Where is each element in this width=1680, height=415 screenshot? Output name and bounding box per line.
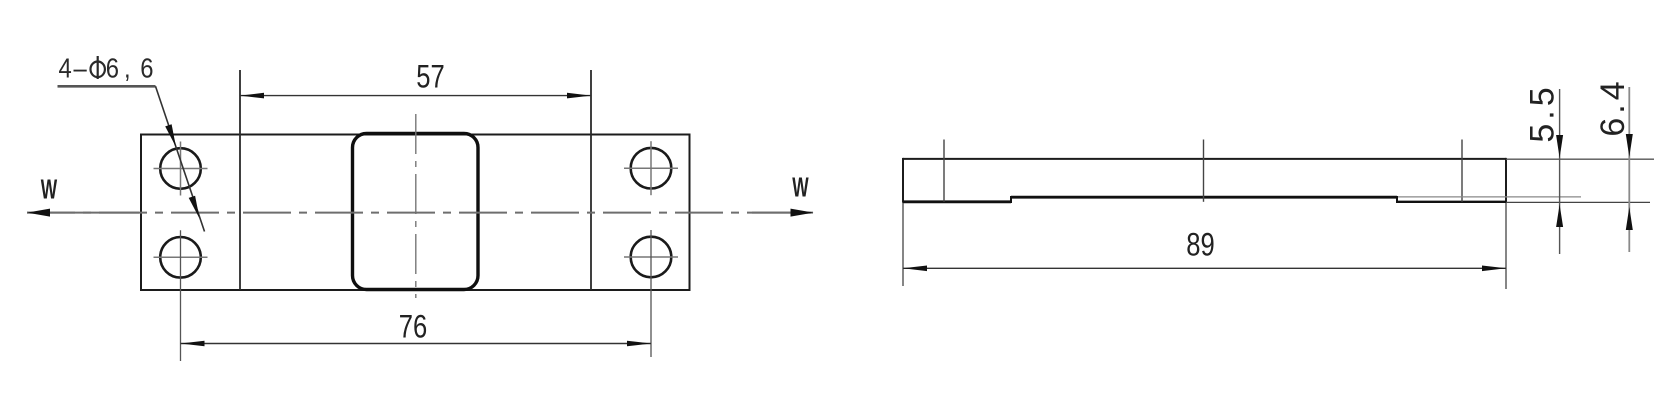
dimension 5.5 arrow bottom (1556, 205, 1563, 228)
horizontal centerline W-W (27, 212, 813, 214)
side view bottom edge left section (903, 200, 1011, 203)
dimension 5.5 line (1559, 89, 1561, 254)
W arrow right (791, 209, 814, 217)
dimension 89 line (903, 267, 1506, 269)
hole H3 crosshair (624, 167, 678, 169)
svg-text:,: , (124, 52, 131, 84)
hole callout leader arrowhead 1 (165, 124, 176, 147)
svg-text:W: W (41, 173, 57, 204)
side view recess step right (1396, 196, 1398, 203)
side view hole centerline left (943, 140, 945, 202)
hole callout underline (58, 85, 156, 88)
bottom surface extension line (1506, 201, 1650, 203)
hole H2 crosshair + 76 extension (154, 256, 208, 258)
svg-text:76: 76 (399, 310, 427, 345)
dimension 89 extension right (1505, 203, 1507, 289)
hole callout leader arrowhead 2 (189, 196, 200, 219)
side view recess bottom (1011, 196, 1397, 199)
side view hole centerline right (1461, 140, 1463, 202)
side view recess step left (1010, 196, 1012, 203)
hole H1 top-left (160, 148, 201, 189)
plate outline (top view) (141, 135, 690, 291)
recess bottom extension line (1398, 196, 1581, 198)
hole callout leader line (156, 86, 205, 231)
svg-text:–: – (74, 52, 88, 84)
svg-text:6: 6 (140, 52, 153, 84)
dimension 6.4 line (1628, 87, 1630, 252)
hole H2 bottom-left (160, 237, 201, 278)
boss edge line left (57 extension) (239, 70, 241, 290)
dimension 89 extension left (902, 203, 904, 286)
svg-text:89: 89 (1186, 228, 1214, 263)
dimension 57 arrow left (240, 93, 264, 99)
hole callout phi symbol (91, 62, 105, 78)
dimension 6.4 arrow top (1626, 134, 1633, 157)
side view right edge (1505, 158, 1507, 203)
dimension 89 arrow left (903, 266, 927, 272)
dimension 5.5 arrow top (1556, 135, 1563, 158)
dimension 6.4 arrow bottom (1626, 207, 1633, 230)
dimension 76 line (181, 343, 652, 345)
side view top edge (903, 158, 1506, 160)
dimension 76 arrow left (181, 341, 205, 347)
svg-text:6.4: 6.4 (1594, 77, 1632, 136)
svg-text:57: 57 (416, 60, 444, 95)
hole H1 crosshair (154, 168, 208, 170)
top surface extension line (1506, 158, 1654, 160)
side view mid centerline (1203, 140, 1205, 202)
dimension 89 arrow right (1482, 266, 1506, 272)
boss edge line right (57 extension) (590, 70, 592, 290)
W arrow left (27, 209, 50, 217)
dimension 76 arrow right (627, 341, 651, 347)
dimension 57 arrow right (567, 93, 591, 99)
hole H4 crosshair + 76 extension (624, 256, 678, 258)
hole H3 top-right (631, 148, 672, 189)
side view left edge (902, 158, 904, 203)
dimension 57 line (240, 95, 591, 97)
svg-text:5.5: 5.5 (1524, 83, 1562, 142)
svg-text:6: 6 (106, 52, 119, 84)
center slot (rounded square) (353, 134, 479, 290)
svg-text:4: 4 (59, 52, 72, 84)
hole H4 bottom-right (631, 237, 672, 278)
slot vertical centerline (415, 114, 417, 298)
svg-text:W: W (792, 171, 808, 202)
side view bottom edge right section (1397, 201, 1506, 203)
